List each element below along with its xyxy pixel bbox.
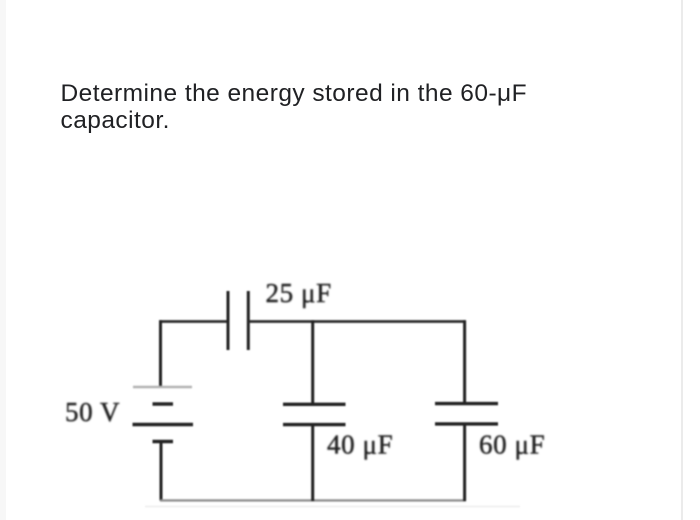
battery V1 long plate 2 bbox=[133, 423, 194, 427]
wire right branch lower bbox=[463, 424, 466, 501]
battery V1 short plate 3 bbox=[153, 440, 174, 444]
svg-text:60 μF: 60 μF bbox=[479, 430, 545, 460]
wire middle branch upper bbox=[311, 320, 314, 404]
figure bottom edge bbox=[145, 506, 520, 508]
svg-text:40 μF: 40 μF bbox=[327, 430, 393, 460]
capacitor C3 60uF bottom plate bbox=[435, 422, 498, 425]
capacitor C2 40uF bottom plate bbox=[283, 423, 346, 426]
battery V1 short plate 1 bbox=[153, 402, 174, 406]
wire bottom bbox=[160, 499, 466, 501]
svg-text:25 μF: 25 μF bbox=[266, 278, 332, 308]
svg-text:50 V: 50 V bbox=[65, 397, 120, 427]
wire battery to bottom bbox=[160, 442, 163, 501]
capacitor C3 60uF top plate bbox=[435, 402, 498, 405]
capacitor C1 25uF right plate bbox=[247, 291, 250, 350]
wire middle branch lower bbox=[311, 425, 314, 501]
capacitor C1 25uF left plate bbox=[227, 291, 230, 350]
wire right branch upper bbox=[463, 320, 466, 403]
wire top right segment bbox=[248, 320, 465, 323]
wire left branch vertical bbox=[159, 320, 162, 387]
battery V1 top long plate bbox=[133, 386, 192, 389]
wire top left segment bbox=[159, 320, 228, 323]
capacitor C2 40uF top plate bbox=[283, 403, 346, 406]
